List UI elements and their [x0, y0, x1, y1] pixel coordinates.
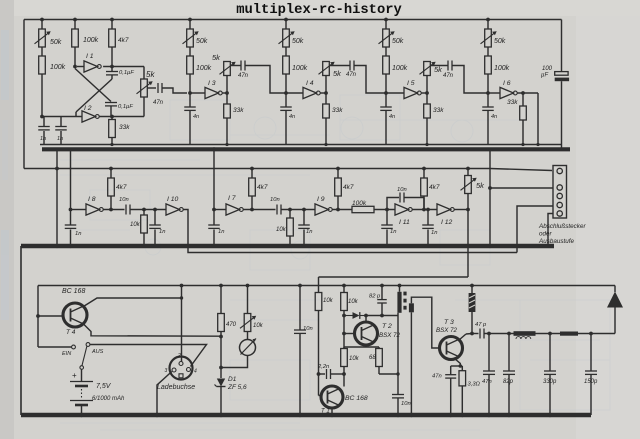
- resistor 4k7 (osc): [109, 20, 129, 48]
- wire I12 out: [454, 208, 470, 212]
- wire 68 down to 10n node: [379, 367, 398, 375]
- wire 100k to I11: [374, 209, 395, 211]
- svg-text:AUS: AUS: [91, 349, 104, 355]
- wire ch3 inverter output: [421, 92, 427, 94]
- inverter I7: [214, 195, 243, 215]
- wire T1 base: [319, 374, 322, 396]
- svg-text:100k: 100k: [292, 65, 308, 72]
- resistor 10k (mid #1): [130, 208, 147, 248]
- wire main +7.5V line (bottom): [38, 285, 615, 287]
- capacitor 47n (ch2): [346, 61, 357, 79]
- svg-text:0,1µF: 0,1µF: [119, 70, 134, 76]
- svg-text:4n: 4n: [389, 114, 395, 120]
- wire bus up to connector pin4: [517, 206, 553, 253]
- wire col B to I1 input: [74, 47, 76, 67]
- svg-text:33k: 33k: [332, 107, 343, 114]
- svg-text:BC 168: BC 168: [345, 395, 368, 402]
- svg-text:330p: 330p: [543, 379, 557, 385]
- wire feed drop to middle supply: [56, 150, 58, 169]
- svg-text:4n: 4n: [491, 114, 497, 120]
- svg-text:5k: 5k: [146, 70, 155, 79]
- wire ch1 col down: [189, 74, 191, 93]
- svg-text:T 3: T 3: [444, 319, 454, 326]
- node supply junction ch3: [384, 18, 388, 22]
- capacitor 10n (mid #2): [270, 197, 281, 215]
- wire transformer winding to T3 base: [411, 297, 439, 348]
- capacitor 150p (rf shunt): [584, 332, 598, 415]
- capacitor 0,1uF (osc #2): [105, 103, 133, 117]
- potentiometer 10k (meter adj): [240, 284, 264, 340]
- svg-text:33k: 33k: [507, 99, 518, 106]
- transformer (osc coil): [397, 284, 414, 313]
- svg-text:50k: 50k: [292, 38, 304, 45]
- wire col C to I1 output row: [111, 47, 113, 67]
- svg-text:100: 100: [542, 66, 553, 72]
- capacitor 1n (I11 input): [381, 210, 396, 249]
- svg-text:100k: 100k: [196, 65, 212, 72]
- potentiometer 50k (ch1): [183, 20, 208, 48]
- diode (T2 clamp): [344, 312, 366, 319]
- wire I12 output drop to modulator: [466, 210, 470, 278]
- svg-text:50k: 50k: [50, 39, 62, 46]
- capacitor 47n (ch1): [238, 61, 249, 80]
- svg-text:33k: 33k: [233, 107, 244, 114]
- wire middle supply line: [24, 169, 552, 171]
- wire I7 out row: [243, 209, 275, 211]
- svg-text:4k7: 4k7: [429, 184, 440, 191]
- svg-text:I 7: I 7: [228, 195, 236, 202]
- potentiometer 50k (ch3): [379, 20, 404, 48]
- inverter I11: [395, 204, 412, 226]
- wire ch2 wiper: [329, 65, 349, 67]
- svg-text:+: +: [72, 371, 77, 380]
- capacitor 4n (ch3): [380, 93, 395, 145]
- connector Abschlussstecker (5-pin): [553, 166, 567, 219]
- node supply junction ch4: [486, 18, 490, 22]
- inverter I9: [315, 196, 332, 215]
- faint bleed-through texture (decorative): [60, 95, 610, 430]
- svg-text:100k: 100k: [392, 65, 408, 72]
- capacitor 4n (ch1): [184, 93, 199, 145]
- wire osc wiper: [147, 87, 156, 89]
- capacitor 1n (mid #2): [298, 208, 312, 248]
- svg-text:I 1: I 1: [86, 53, 94, 60]
- wire I2 output row: [99, 116, 144, 118]
- resistor 470: [218, 284, 237, 378]
- svg-text:82p: 82p: [503, 379, 514, 385]
- wire top supply rail: [24, 19, 562, 21]
- wire left border of oscillator section: [23, 20, 25, 169]
- svg-text:I 6: I 6: [503, 80, 511, 87]
- label BC168 (T4): [62, 288, 85, 295]
- svg-text:Abschlußstecker: Abschlußstecker: [538, 223, 586, 230]
- node ch2 inverter input: [284, 91, 288, 95]
- node on band (I7 feed): [212, 147, 216, 151]
- wire T2 emitter node: [344, 345, 379, 347]
- wire T4 emitter to supply: [83, 296, 183, 307]
- wire ch2 col down: [285, 74, 287, 93]
- inverter I10: [166, 196, 183, 215]
- wire I9 out row: [332, 209, 352, 211]
- wire ch4 col down: [487, 74, 489, 93]
- node supply junction ch2: [284, 18, 288, 22]
- wire ch2 inverter output: [320, 92, 326, 94]
- wire AUS contact to charging socket pin4: [90, 345, 207, 367]
- svg-text:Ladebuchse: Ladebuchse: [157, 384, 195, 391]
- wire connector pin5 ground stub: [548, 214, 553, 245]
- resistor 33k (ch4): [507, 93, 526, 145]
- svg-text:50k: 50k: [494, 38, 506, 45]
- node ch1 output junction: [225, 91, 229, 95]
- svg-text:47n: 47n: [443, 73, 454, 79]
- svg-text:I 10: I 10: [167, 196, 179, 203]
- svg-text:5k: 5k: [212, 53, 221, 62]
- wire modulation line from I12: [319, 276, 469, 278]
- svg-text:10n: 10n: [397, 187, 407, 193]
- wire supply to socket pin2: [180, 284, 184, 362]
- svg-text:ZF 5,6: ZF 5,6: [227, 384, 247, 391]
- resistor 33k (ch2): [323, 93, 344, 145]
- resistor 68 (T2 emitter): [369, 347, 382, 367]
- inverter I4: [286, 80, 320, 99]
- svg-text:470: 470: [226, 322, 237, 328]
- wire left border (bottom section): [20, 246, 22, 415]
- wire T3 collector: [459, 332, 474, 340]
- node I2 output junction: [110, 115, 114, 119]
- label T3: [436, 319, 458, 334]
- node ch2 output junction: [324, 91, 328, 95]
- svg-text:33k: 33k: [433, 107, 444, 114]
- svg-text:100k: 100k: [50, 64, 66, 71]
- node I11 input: [385, 208, 389, 212]
- resistor 10k (mid #2): [276, 208, 293, 248]
- wire ch3 to next stage: [452, 66, 488, 94]
- switch EIN/AUS: [38, 343, 104, 370]
- capacitor 82p (rf shunt): [503, 332, 515, 418]
- svg-text:50k: 50k: [196, 38, 208, 45]
- capacitor 4n (ch2): [280, 93, 295, 145]
- svg-text:10k: 10k: [323, 298, 334, 304]
- node ch3 inverter input: [384, 91, 388, 95]
- resistor 33k (ch3): [424, 93, 445, 145]
- svg-text:100k: 100k: [494, 65, 510, 72]
- svg-text:47n: 47n: [482, 379, 492, 385]
- resistor 100k (ch3): [383, 47, 408, 74]
- inductor L2 (pi filter): [560, 332, 578, 336]
- svg-text:I 5: I 5: [407, 80, 415, 87]
- resistor 100k (osc, col B): [72, 20, 99, 48]
- svg-text:0,1µF: 0,1µF: [118, 104, 133, 110]
- wire T3 emitter node: [451, 358, 463, 368]
- svg-text:50k: 50k: [392, 38, 404, 45]
- wire T2 collector: [364, 314, 398, 322]
- wire osc out to stage1: [162, 88, 187, 93]
- node battery/charge junction: [219, 335, 223, 339]
- resistor 100k (mid): [352, 200, 374, 213]
- wire I11 out: [412, 209, 437, 211]
- resistor 100k (ch2): [283, 47, 308, 74]
- zener diode D1 ZF5,6: [215, 376, 248, 417]
- wire heavy ground band of top section: [42, 147, 570, 151]
- svg-text:5k: 5k: [333, 69, 342, 78]
- svg-text:47n: 47n: [238, 73, 249, 79]
- svg-text:4n: 4n: [289, 114, 295, 120]
- svg-text:10k: 10k: [253, 323, 264, 329]
- wire supply drop / connector pin2 wire: [488, 150, 553, 248]
- wire I8 out row: [103, 209, 124, 211]
- svg-text:T 1: T 1: [321, 409, 330, 415]
- battery 7,5V: [70, 370, 125, 418]
- svg-text:4: 4: [194, 369, 197, 375]
- svg-text:3,3Ω: 3,3Ω: [468, 382, 481, 388]
- resistor 33R (T3 emitter): [459, 366, 481, 417]
- resistor 100k (osc, col A): [39, 47, 66, 74]
- label T2: [379, 323, 401, 339]
- capacitor 2,2n (T1 coupling): [317, 364, 344, 379]
- wire heavy ground band (middle): [21, 244, 554, 248]
- svg-text:1n: 1n: [75, 231, 81, 237]
- svg-text:150p: 150p: [584, 379, 598, 385]
- wire T4 collector run: [83, 324, 221, 337]
- capacitor 10n (supply decoupling): [294, 284, 313, 418]
- svg-text:D1: D1: [228, 376, 237, 383]
- capacitor 47p (output coupling): [472, 322, 514, 339]
- svg-text:multiplex-rc-history: multiplex-rc-history: [236, 2, 402, 18]
- wire cross-coupling diagonal A: [76, 79, 112, 117]
- wire ch1 inverter output: [222, 92, 227, 94]
- svg-text:5k: 5k: [434, 65, 443, 74]
- node ch4 output junction: [521, 91, 525, 95]
- wire ch3 col down: [385, 74, 387, 93]
- potentiometer 5k (ch2): [319, 62, 343, 94]
- potentiometer 50k (osc, col A): [35, 20, 62, 48]
- svg-text:4k7: 4k7: [116, 184, 127, 191]
- capacitor 1n (I7 input): [208, 208, 224, 248]
- svg-text:µF: µF: [541, 73, 548, 79]
- resistor 4k7 (mid #2): [249, 167, 268, 212]
- svg-text:3: 3: [165, 368, 168, 374]
- wire ch1 wiper: [230, 65, 240, 67]
- resistor 100k (ch1): [187, 47, 212, 74]
- capacitor 82p (osc fb): [369, 284, 387, 316]
- label T4: [66, 329, 76, 336]
- svg-text:47n: 47n: [432, 374, 442, 380]
- antenna: [607, 286, 623, 334]
- title text multiplex-rc-history: [236, 2, 402, 18]
- inverter I1: [77, 53, 101, 72]
- node I1 input junction: [73, 65, 77, 69]
- wire I10 output to lower bus: [183, 210, 517, 253]
- wire socket pin3 to ground: [155, 372, 172, 418]
- potentiometer 5k (middle): [461, 167, 486, 210]
- node T2 base: [342, 332, 346, 336]
- inverter I3: [190, 80, 222, 99]
- svg-text:10n: 10n: [119, 197, 129, 203]
- resistor 33k (ch1): [224, 93, 245, 145]
- capacitor 10n (osc decoupling): [392, 395, 411, 418]
- svg-text:10k: 10k: [349, 356, 360, 362]
- wire 10k3 to T1 collector: [342, 367, 346, 387]
- svg-text:47n: 47n: [153, 100, 164, 106]
- svg-text:EIN: EIN: [62, 351, 71, 357]
- svg-text:47n: 47n: [346, 72, 357, 78]
- node supply/col-C junction: [110, 18, 114, 22]
- capacitor 47n (T3 emitter): [432, 366, 456, 417]
- inductor L1 (pi filter): [514, 331, 536, 339]
- svg-text:82 p: 82 p: [369, 294, 381, 300]
- resistor 33k (osc): [109, 117, 131, 145]
- resistor 4k7 (mid #1): [108, 167, 127, 212]
- svg-text:10k: 10k: [130, 222, 141, 228]
- potentiometer 50k (ch4): [481, 20, 506, 48]
- svg-text:10k: 10k: [276, 227, 287, 233]
- svg-text:I 2: I 2: [84, 105, 92, 112]
- node supply/col-B junction: [73, 18, 77, 22]
- node I1 output junction: [110, 65, 114, 69]
- inverter I6: [488, 80, 517, 99]
- inverter I8: [86, 196, 103, 215]
- capacitor 1n (I8 input): [65, 208, 82, 248]
- wire switch feed drop: [36, 286, 40, 348]
- svg-text:100k: 100k: [83, 37, 99, 44]
- wire after 10n #1: [130, 209, 166, 211]
- wire T2 base: [344, 333, 354, 335]
- svg-text:33k: 33k: [119, 124, 130, 131]
- transistor T2 BSX72: [355, 322, 378, 345]
- svg-text:68: 68: [369, 355, 376, 361]
- wire thin signal rail (bottom of top section): [40, 144, 562, 146]
- svg-text:BSX 72: BSX 72: [436, 327, 458, 334]
- node ch4 inverter input: [486, 91, 490, 95]
- wire after 10n #2: [281, 209, 315, 211]
- wire col A down: [41, 74, 43, 117]
- wire transformer primary down: [396, 313, 399, 394]
- node col A / I2 input row: [40, 115, 44, 119]
- resistor 100k (ch4): [485, 47, 510, 74]
- potentiometer 5k (ch3): [420, 62, 444, 94]
- label T1: [321, 409, 330, 415]
- resistor 10k (T2 emitter): [341, 347, 360, 367]
- wire trimmer to D1 node: [219, 356, 247, 370]
- label Abschlussstecker oder Ausbaustufe: [538, 223, 586, 245]
- capacitor 1n (osc left #2): [55, 117, 67, 145]
- potentiometer 50k (ch2): [279, 20, 304, 48]
- svg-text:4n: 4n: [193, 114, 199, 120]
- capacitor 47n (ch3): [443, 61, 454, 80]
- capacitor 0,1uF (osc #1): [106, 67, 134, 80]
- svg-text:1n: 1n: [159, 229, 165, 235]
- svg-text:5k: 5k: [476, 181, 485, 190]
- node ch3 output junction: [425, 91, 429, 95]
- svg-text:I 12: I 12: [441, 219, 453, 226]
- svg-text:1n: 1n: [57, 136, 63, 142]
- label BC168 (T1): [345, 395, 368, 402]
- svg-text:1n: 1n: [431, 230, 437, 236]
- transistor T1 BC168 (modulator): [321, 386, 343, 408]
- wire ch1 to next stage: [245, 66, 286, 94]
- svg-text:10n: 10n: [270, 197, 280, 203]
- wire ch3 wiper: [430, 65, 447, 67]
- wire ch4 output drop: [537, 93, 539, 145]
- node supply/col-A junction: [40, 18, 44, 22]
- wire top rail right corner down: [561, 20, 563, 72]
- charging socket Ladebuchse: [157, 353, 197, 391]
- wire left drop to lower section: [55, 167, 59, 246]
- inverter I12: [437, 204, 454, 226]
- svg-text:I 4: I 4: [306, 80, 314, 87]
- potentiometer 5k (osc output): [137, 67, 156, 117]
- wire bottom ground rail: [21, 413, 591, 417]
- resistor 4k7 (mid #4): [421, 167, 440, 212]
- svg-text:I 9: I 9: [317, 196, 325, 203]
- node ch1 inverter input: [188, 91, 192, 95]
- wire I1 output row: [103, 66, 144, 68]
- wire T1 emitter to ground: [330, 408, 334, 417]
- svg-text:oder: oder: [539, 231, 553, 238]
- node diode tap: [342, 314, 346, 318]
- svg-text:1n: 1n: [40, 136, 46, 142]
- wire I7 input drop: [213, 149, 215, 209]
- transistor T4 BC168 (switch): [38, 303, 87, 327]
- svg-text:I 8: I 8: [88, 196, 96, 203]
- capacitor 1n (I12 input): [422, 208, 437, 248]
- svg-text:4k7: 4k7: [257, 184, 268, 191]
- wire ch2 to next stage: [354, 66, 386, 94]
- capacitor 1n (mid #1): [149, 208, 165, 248]
- svg-text:10n: 10n: [401, 401, 411, 407]
- meter/trimmer symbol: [240, 339, 257, 356]
- svg-text:4k7: 4k7: [118, 37, 129, 44]
- svg-text:T 2: T 2: [382, 323, 392, 330]
- capacitor 4n (ch4): [482, 93, 497, 145]
- node thin-rail junctions: [110, 143, 539, 146]
- wire cross-coupling diagonal B: [75, 69, 111, 102]
- svg-text:2: 2: [177, 353, 181, 359]
- resistor 10k (T2 base upper): [315, 277, 333, 374]
- node supply junction ch1: [188, 18, 192, 22]
- svg-text:Ausbaustufe: Ausbaustufe: [538, 238, 575, 245]
- svg-text:2,2n: 2,2n: [317, 364, 329, 370]
- svg-text:100k: 100k: [352, 200, 367, 207]
- capacitor 47n (rf shunt 1): [482, 332, 495, 418]
- svg-text:I 11: I 11: [399, 219, 410, 226]
- svg-text:1n: 1n: [218, 229, 224, 235]
- svg-text:T 4: T 4: [66, 329, 76, 336]
- potentiometer 5k (ch1): [212, 53, 236, 93]
- capacitor 100uF electrolytic: [541, 66, 569, 150]
- svg-text:10n: 10n: [303, 326, 313, 332]
- capacitor 10n feedback (I11): [387, 187, 424, 210]
- svg-text:10k: 10k: [348, 299, 359, 305]
- capacitor 47n (osc out): [153, 83, 164, 106]
- wire ch4 inverter output: [517, 92, 538, 94]
- capacitor 330p (rf shunt): [543, 332, 557, 418]
- resistor 4k7 (mid #3): [335, 167, 354, 212]
- wire transformer secondary to ground: [409, 312, 413, 417]
- svg-text:1n: 1n: [306, 229, 312, 235]
- wire to antenna: [578, 333, 615, 335]
- svg-text:7,5V: 7,5V: [96, 383, 112, 390]
- capacitor 1n (osc left #1): [38, 117, 50, 145]
- inverter I2: [42, 105, 99, 122]
- svg-text:1n: 1n: [390, 229, 396, 235]
- svg-text:47 p: 47 p: [475, 322, 487, 328]
- svg-text:I 3: I 3: [208, 80, 216, 87]
- svg-text:4k7: 4k7: [343, 184, 354, 191]
- wire between inductors: [536, 333, 561, 335]
- wire I8 input drop: [70, 150, 72, 210]
- svg-text:BC 168: BC 168: [62, 288, 85, 295]
